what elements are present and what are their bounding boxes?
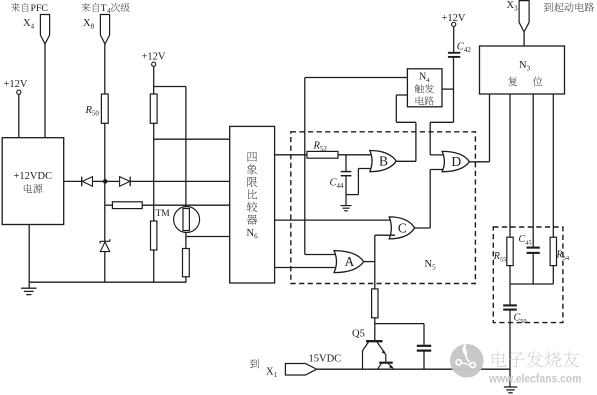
resistor below +12V mid (150, 94, 157, 123)
trigger N4 box (407, 69, 442, 107)
or-gate D (442, 151, 469, 171)
wire join to C50 (509, 284, 511, 305)
thermistor body (183, 209, 189, 231)
or-gate B (370, 151, 396, 172)
wire feedback vertical (304, 78, 306, 255)
wire box bottom to ground (28, 225, 30, 289)
wire feedback to N4 (305, 77, 408, 79)
resistor mid-left (112, 202, 142, 209)
wire +12V mid down (153, 66, 155, 94)
label 来自T4次级 (81, 3, 99, 12)
capacitor C50 (503, 304, 517, 306)
or-gate C (389, 217, 414, 239)
wire +12V left to box (18, 94, 20, 137)
connector X1 (285, 364, 316, 376)
wire D1 to junction (93, 180, 120, 182)
wire base to capacitor (375, 323, 424, 325)
label 电路 (416, 96, 434, 105)
resistor R55 (507, 237, 513, 265)
svg-text:15VDC: 15VDC (309, 354, 342, 365)
wire +12V resistor down to rail (153, 123, 155, 282)
wire N3 pin4 (552, 94, 554, 237)
terminal +12V mid (152, 62, 156, 66)
label 来自PFC (11, 3, 29, 12)
wire C output (415, 227, 431, 229)
capacitor C42 (448, 52, 460, 54)
diode D1 (82, 177, 93, 187)
svg-text:+12VDC: +12VDC (14, 171, 53, 182)
wire R52 to gate B (338, 154, 376, 156)
wire comparator out3 to A input2 (275, 267, 340, 269)
power supply +12VDC box (2, 138, 64, 225)
label 到起动电路 (544, 2, 594, 11)
connector X3 (519, 1, 529, 32)
capacitor C45 (527, 247, 540, 249)
label 电源 (24, 184, 43, 193)
wire comparator out1 to R52 (275, 154, 307, 156)
connector X8 (100, 15, 109, 45)
wire TM to resistor below (185, 233, 187, 249)
ground rail (29, 281, 186, 283)
wire C44 bottom (345, 176, 347, 195)
wire branch to TM line (154, 86, 186, 88)
ground bottom right (504, 387, 517, 393)
wire B feedback up (415, 122, 417, 161)
wire capacitor to rail (423, 351, 425, 369)
wire C45 to join (532, 253, 534, 284)
svg-text:+12V: +12V (142, 52, 166, 63)
wire junction down to zener (104, 181, 106, 241)
svg-text:A: A (345, 254, 355, 269)
wire C44 jog to B input2 (346, 194, 358, 196)
ground below C44 (341, 206, 352, 211)
wire comparator input4 (187, 236, 230, 238)
wire N3 pin3 (532, 94, 534, 247)
resistor R52 (307, 151, 338, 158)
dashed box N5 (291, 132, 476, 284)
svg-text:T: T (101, 3, 107, 14)
wire A output (364, 261, 375, 263)
label 到 (250, 359, 259, 368)
capacitor at Q5 (417, 345, 431, 347)
wire zener to rail (104, 252, 106, 283)
wire resistor to rail (185, 277, 187, 282)
svg-text:www.elecfans.com: www.elecfans.com (488, 371, 581, 385)
wire D output (469, 161, 489, 163)
wire box to diode D1 (64, 180, 82, 182)
svg-text:Q5: Q5 (352, 329, 365, 340)
wire C input2 corner (375, 234, 395, 236)
wire R55 to join (509, 266, 511, 284)
resistor below TM (183, 249, 190, 277)
wire C44 tap (345, 155, 347, 172)
wire N3 pin2 (509, 94, 511, 237)
wire join line (510, 283, 553, 285)
comparator N6 box (230, 126, 275, 283)
rail 15VDC (317, 368, 510, 370)
resistor R50 (101, 94, 108, 123)
wire +12V to C42 (453, 27, 455, 53)
dashed box RC (493, 227, 563, 323)
label 复位 (508, 77, 517, 86)
or-gate A (334, 251, 364, 273)
wire resistor to Q5 base (374, 318, 376, 341)
wire R50 to diode junction (104, 123, 106, 181)
transistor Q5 darlington (363, 341, 394, 369)
label 触发 (415, 84, 434, 93)
wire D2 to comparator input2 (130, 180, 230, 182)
wire B output (396, 160, 416, 162)
resistor on +12V line lower (151, 221, 157, 250)
wire D to N3 (489, 94, 491, 162)
ground below box (21, 288, 36, 294)
svg-text:C: C (398, 221, 407, 236)
wire C44 to ground (345, 195, 347, 206)
wire C50 to rail (509, 310, 511, 369)
capacitor C44 (341, 171, 352, 173)
wire capacitor top (423, 324, 425, 345)
wire X4 to +12VDC box (44, 44, 46, 138)
wire N4 to C42 line (442, 88, 454, 90)
wire C42 down (453, 57, 455, 122)
reset N3 box (480, 46, 565, 94)
wire TM line down (185, 87, 187, 208)
svg-text:B: B (379, 154, 388, 169)
wire junction to R on y205 (105, 204, 112, 206)
wire comparator out2 to C (275, 219, 395, 221)
wire comparator input1 (154, 138, 230, 140)
terminal +12V left (17, 90, 21, 94)
diode D2 (120, 177, 131, 187)
connector X4 (40, 15, 49, 45)
resistor R54 (550, 237, 556, 265)
svg-text:PFC: PFC (31, 3, 48, 14)
svg-text:4: 4 (107, 7, 111, 15)
resistor above Q5 (372, 289, 378, 318)
svg-text:D: D (451, 154, 461, 169)
wire R54 to join (552, 266, 554, 284)
zener diode (100, 239, 110, 251)
wire A input1 (305, 254, 340, 256)
wire X8 to R50 (104, 44, 106, 94)
label 四象限比较器 N6 (247, 152, 258, 224)
svg-text:+12V: +12V (4, 79, 28, 90)
watermark elecfans (450, 343, 582, 386)
wire R to comparator input3 (142, 204, 230, 206)
thermistor TM circle (174, 207, 200, 233)
svg-text:TM: TM (156, 209, 171, 219)
terminal +12V right (452, 22, 456, 26)
wire X3 to N3 (523, 32, 525, 46)
junction dot (103, 179, 108, 184)
wire A junction down (374, 262, 376, 289)
wire C42 jog to D input1 (430, 121, 453, 123)
wire rail to ground right (509, 369, 511, 387)
